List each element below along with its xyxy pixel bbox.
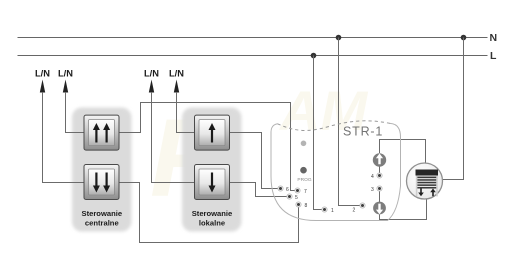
wire central up switch to terminal 7 xyxy=(119,103,295,191)
wire arrow4 to local up switch xyxy=(177,92,195,133)
svg-text:lokalne: lokalne xyxy=(199,219,225,228)
svg-text:centralne: centralne xyxy=(85,219,119,228)
wire terminal 3 to down-button circle xyxy=(379,191,381,202)
svg-text:L/N: L/N xyxy=(169,69,184,79)
svg-text:6: 6 xyxy=(286,187,289,193)
svg-text:5: 5 xyxy=(295,195,298,201)
central control switch panel xyxy=(72,108,132,232)
wire N rail xyxy=(18,37,488,39)
wire L rail to terminal 1 xyxy=(314,56,323,210)
wire N rail to terminal 2 xyxy=(339,38,361,206)
svg-text:STR-1: STR-1 xyxy=(343,125,383,139)
terminal 1 xyxy=(322,207,334,214)
svg-text:Sterowanie: Sterowanie xyxy=(192,209,233,218)
node junction on L rail to terminal 1 xyxy=(311,53,317,59)
STR-1 device outline dashed top xyxy=(278,121,391,131)
svg-text:N: N xyxy=(490,32,498,44)
svg-text:L: L xyxy=(490,50,497,62)
switch S3 local up xyxy=(195,115,230,150)
wire local down switch to terminal 5 xyxy=(230,183,288,197)
node L/N arrow 2 xyxy=(58,69,73,93)
shutter slats xyxy=(417,176,438,190)
svg-text:3: 3 xyxy=(371,187,374,193)
node L/N arrow 3 xyxy=(144,69,159,93)
wire down-button circle to motor bottom terminal xyxy=(380,199,427,220)
PROG LED xyxy=(300,167,307,174)
svg-text:4: 4 xyxy=(371,174,374,180)
switch S2 central down xyxy=(84,165,119,200)
shutter up arrow xyxy=(430,189,436,197)
wire arrow3 to local down switch xyxy=(152,92,195,183)
wire L rail xyxy=(18,55,488,57)
svg-text:8: 8 xyxy=(305,203,308,209)
terminal 4 xyxy=(371,173,382,180)
terminal 3 xyxy=(371,186,382,193)
label central control caption xyxy=(82,209,123,228)
svg-text:1: 1 xyxy=(331,208,334,214)
wire arrow1 to central down switch xyxy=(43,92,85,183)
svg-text:Sterowanie: Sterowanie xyxy=(82,209,123,218)
label local control caption xyxy=(192,209,233,228)
node junction on N rail to terminal 2 xyxy=(336,35,342,41)
terminal 6 xyxy=(278,186,289,193)
svg-text:L/N: L/N xyxy=(144,69,159,79)
wire up-button circle to motor top terminal xyxy=(380,140,426,164)
terminal 7 xyxy=(295,188,307,195)
switch S1 central up xyxy=(84,115,119,150)
down-button circle on device xyxy=(373,202,386,215)
svg-text:2: 2 xyxy=(353,208,356,214)
svg-text:L/N: L/N xyxy=(35,69,50,79)
terminal 8 xyxy=(296,202,308,209)
svg-text:L/N: L/N xyxy=(58,69,73,79)
node L/N arrow 4 xyxy=(169,69,184,93)
motor M xyxy=(407,163,443,199)
up-button circle on device xyxy=(373,153,386,166)
node L/N arrow 1 xyxy=(35,69,50,93)
terminal 5 xyxy=(287,194,298,201)
shutter down arrow xyxy=(418,189,424,197)
local control switch panel xyxy=(182,108,242,232)
STR-1 device outline solid part xyxy=(271,123,401,220)
wire local up switch to terminal 6 xyxy=(230,133,279,189)
wire arrow2 to central up switch xyxy=(66,92,85,133)
terminal 2 xyxy=(353,203,366,214)
shutter side rails xyxy=(416,176,418,197)
svg-text:PROG: PROG xyxy=(297,177,311,183)
switch S4 local down xyxy=(195,165,230,200)
svg-text:7: 7 xyxy=(304,189,307,195)
wire up-button circle to terminal 4 xyxy=(379,167,381,174)
node junction on N rail to motor xyxy=(461,35,467,41)
watermark xyxy=(150,79,368,220)
shutter top cap xyxy=(416,170,439,176)
wire central down switch to terminal 8 xyxy=(119,183,299,243)
wire N rail to motor right terminal xyxy=(443,38,464,180)
LED indicator xyxy=(301,141,307,147)
